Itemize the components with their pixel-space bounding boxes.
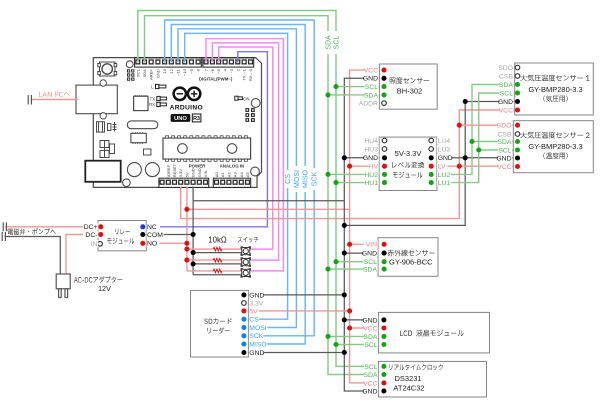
svg-text:AT24C32: AT24C32	[393, 384, 424, 393]
wire pump to relay DC+	[5, 226, 101, 228]
Arduino mounting hole top	[126, 61, 133, 68]
svg-text:POWER: POWER	[189, 164, 206, 169]
level converter pin HU4	[382, 138, 387, 143]
svg-text:TX→1: TX→1	[242, 68, 247, 80]
barometric sensor U1 GY-BMP280 box	[515, 63, 594, 115]
AC-DC adapter label	[74, 276, 123, 282]
RTC module DS3231 pin SCL	[381, 364, 386, 369]
barometric sensor U1 GY-BMP280 pin GND	[515, 99, 520, 104]
wire relay NO to 5V	[144, 242, 187, 244]
wire switch SW1 to GND	[193, 252, 242, 254]
SD pin labels	[249, 291, 263, 298]
wire SD 5V	[244, 310, 350, 312]
svg-text:GY-BMP280-3.3: GY-BMP280-3.3	[528, 85, 582, 94]
wire IR SCL branch	[336, 261, 384, 263]
Arduino power jack	[85, 161, 120, 182]
Arduino ICSP2 header	[127, 69, 134, 80]
svg-text:RX←0: RX←0	[248, 68, 253, 81]
BMP280-1 title	[520, 75, 589, 82]
wire relay COM to GND	[144, 234, 193, 236]
wire switch SW2 to GND	[193, 263, 242, 265]
net label SCL (rotated)	[333, 31, 340, 54]
relay pin NO	[140, 241, 145, 246]
infrared sensor GY-906 pin SCL	[382, 259, 387, 264]
infrared sensor GY-906 pin VIN	[382, 242, 387, 247]
wire HU1 branch	[336, 182, 385, 184]
svg-text:RESET: RESET	[172, 163, 177, 177]
svg-text:~10: ~10	[182, 68, 187, 76]
net label MOSI (rotated)	[293, 166, 300, 192]
SD pin 5V	[241, 308, 246, 313]
svg-text:GY-906-BCC: GY-906-BCC	[389, 258, 433, 267]
level converter pin LU3	[429, 147, 434, 152]
svg-text:GND: GND	[496, 155, 511, 162]
wire BMP280-2 SDO to 3.3V	[459, 124, 517, 126]
barometric sensor U2 GY-BMP280 pin CSB	[515, 132, 520, 137]
svg-text:SCL: SCL	[498, 147, 511, 154]
Arduino caps pair left	[100, 141, 115, 158]
wire 3.3V net (Arduino 3.3V to LV / BMP280-2 SDO,VCC / BMP280-1 VCC)	[181, 110, 518, 219]
barometric sensor U1 GY-BMP280 pin SDO	[515, 65, 520, 70]
svg-text:NO: NO	[147, 241, 157, 248]
switch SW3 (tactile)	[241, 269, 251, 278]
svg-text:HU3: HU3	[364, 146, 378, 153]
relay pin DC+	[98, 224, 103, 229]
Arduino mounting hole right	[251, 99, 260, 108]
Arduino small chip mid-left	[131, 133, 146, 142]
LCD module box	[379, 312, 490, 353]
Arduino reset button	[98, 62, 117, 76]
AC-DC adapter body	[56, 274, 70, 289]
resistor R1 10k pull-up row	[187, 248, 213, 250]
svg-text:GND: GND	[362, 251, 377, 258]
svg-text:HU2: HU2	[364, 172, 378, 179]
relay pin COM	[140, 232, 145, 237]
BMP280-2 title	[520, 132, 589, 139]
illuminance sensor BH-302 pin VCC	[381, 68, 386, 73]
svg-text:LU1: LU1	[438, 180, 451, 187]
wire LC GND left branch	[344, 157, 384, 159]
svg-text:13: 13	[162, 68, 167, 73]
svg-text:SDA: SDA	[363, 267, 377, 274]
wire adapter to relay DC-	[66, 235, 101, 275]
illuminance sensor BH-302 box	[379, 64, 437, 109]
level converter pin HU1	[382, 180, 387, 185]
svg-text:DC-: DC-	[85, 232, 97, 239]
svg-text:SDA: SDA	[364, 334, 378, 341]
svg-text:VIN: VIN	[366, 242, 377, 249]
svg-text:RX: RX	[149, 102, 155, 107]
infrared sensor GY-906 pin SDA	[382, 267, 387, 272]
BH-302 title	[390, 77, 430, 84]
illuminance sensor BH-302 pin SDA	[381, 92, 386, 97]
wire IR SDA branch	[328, 268, 384, 270]
wire LCD SCL branch	[336, 344, 384, 346]
wire pin2 to relay NC	[144, 52, 267, 227]
SD pin CS	[241, 317, 246, 322]
svg-text:GND: GND	[362, 388, 377, 395]
Arduino infinity logo	[174, 88, 201, 100]
svg-text:ON: ON	[243, 97, 249, 102]
svg-text:LV: LV	[438, 164, 446, 171]
svg-text:CSB: CSB	[499, 73, 513, 80]
svg-text:A4: A4	[239, 172, 244, 178]
svg-text:GND: GND	[197, 168, 202, 177]
relay pin IN (open)	[98, 242, 103, 247]
illuminance sensor BH-302 pin ADDR	[382, 101, 387, 106]
wire BMP280-2 SCL branch	[479, 149, 518, 151]
Arduino digital header pins SCL-8	[135, 58, 202, 67]
Arduino MCU ATmega328	[163, 136, 251, 162]
connector to LAN PC (double bar)	[28, 95, 31, 105]
wire 5V branch to HV rail	[187, 208, 350, 210]
barometric sensor U2 GY-BMP280 pin SDA	[515, 139, 520, 144]
barometric sensor U2 GY-BMP280 pin SDO	[515, 123, 520, 128]
svg-text:ADDR: ADDR	[359, 101, 378, 108]
svg-text:A0: A0	[214, 172, 219, 178]
svg-text:LU3: LU3	[438, 146, 451, 153]
IR sensor title	[388, 250, 435, 257]
resistor R2 10k pull-up row	[187, 259, 213, 261]
level converter pin GND	[382, 155, 387, 160]
svg-text:AREF: AREF	[149, 69, 154, 80]
svg-text:SDA: SDA	[364, 372, 378, 379]
svg-text:A2: A2	[226, 172, 231, 178]
svg-text:CS: CS	[249, 317, 259, 324]
wire BMP280-2 SDA branch	[472, 141, 518, 143]
svg-text:DIGITAL(PWM~): DIGITAL(PWM~)	[199, 76, 233, 81]
resistor R3 10k pull-up row	[187, 270, 213, 272]
svg-text:5V-3.3V: 5V-3.3V	[395, 149, 422, 158]
svg-text:TX: TX	[150, 96, 156, 101]
Arduino POWER header	[159, 178, 209, 187]
svg-text:DS3231: DS3231	[394, 374, 421, 383]
level converter pin GND	[429, 155, 434, 160]
wire SCK (Arduino pin 13 to SD reader SCK)	[165, 20, 315, 336]
Arduino ANALOG IN header	[213, 178, 250, 187]
wire SD GND bottom	[244, 352, 344, 354]
wire pin7 to switch SW3	[206, 39, 283, 271]
label LAN PC	[39, 92, 70, 97]
junction dots green (SDA/SCL nets)	[333, 84, 338, 89]
svg-text:BH-302: BH-302	[397, 86, 422, 95]
svg-text:GND: GND	[498, 99, 513, 106]
svg-text:LU2: LU2	[438, 172, 451, 179]
wire SD MOSI stub	[244, 327, 266, 329]
RTC module DS3231 pin SDA	[381, 372, 386, 377]
barometric sensor U1 GY-BMP280 pin SDA	[515, 82, 520, 87]
svg-text:~3: ~3	[229, 68, 234, 73]
svg-text:~5: ~5	[216, 68, 221, 73]
net label SCK (rotated)	[311, 168, 318, 190]
svg-text:~11: ~11	[176, 68, 181, 75]
svg-text:MOSI: MOSI	[294, 170, 301, 188]
svg-text:~9: ~9	[189, 68, 194, 73]
level converter pin LU4	[429, 138, 434, 143]
wire LCD VCC branch	[350, 327, 384, 329]
svg-text:VCC: VCC	[499, 107, 513, 114]
wire LV to BMP280-2 VCC	[431, 165, 517, 167]
svg-text:3.3V: 3.3V	[178, 169, 183, 178]
svg-text:HU4: HU4	[364, 138, 378, 145]
svg-text:SDA: SDA	[498, 139, 512, 146]
barometric sensor U1 GY-BMP280 pin VCC	[515, 107, 520, 112]
LCD module pin SDA	[381, 334, 386, 339]
Ethernet jack	[76, 85, 117, 114]
svg-text:HU1: HU1	[364, 180, 378, 187]
pump label 電磁弁・ポンプへ	[8, 228, 56, 235]
svg-text:SDA: SDA	[142, 69, 147, 78]
svg-text:VCC: VCC	[364, 68, 378, 75]
wire pin5 to switch SW1	[219, 47, 273, 249]
svg-text:MISO: MISO	[249, 341, 266, 348]
SD pin MOSI	[241, 325, 246, 330]
wire IR VIN branch	[350, 243, 385, 245]
barometric sensor U2 GY-BMP280 box	[513, 121, 593, 173]
wire IR GND branch	[344, 252, 384, 254]
Arduino bottom circles	[127, 163, 141, 177]
svg-text:VIN: VIN	[203, 170, 208, 177]
Arduino oscillator oval	[127, 121, 158, 129]
svg-text:IN: IN	[91, 241, 98, 248]
svg-text:MOSI: MOSI	[249, 325, 266, 332]
svg-text:DC+: DC+	[84, 224, 98, 231]
RTC module DS3231 box	[379, 361, 487, 397]
svg-text:SCL: SCL	[364, 342, 377, 349]
svg-text:ARDUINO: ARDUINO	[170, 104, 203, 111]
net label CS (rotated)	[284, 170, 291, 188]
svg-text:12V: 12V	[98, 284, 111, 293]
relay label text	[115, 229, 129, 235]
wire LAN cable	[31, 99, 78, 101]
svg-text:GND: GND	[191, 168, 196, 177]
svg-text:COM: COM	[147, 232, 163, 239]
wire GND rail right (BH-302 GND / LC GND / IR GND / SD GND / LCD GND / RTC GND)	[344, 78, 384, 391]
svg-text:GND: GND	[155, 69, 160, 78]
wire GND vertical (Arduino GND to relay COM and switches)	[192, 187, 194, 275]
junction dots red (power nets)	[184, 207, 189, 212]
Arduino small caps/components left	[97, 122, 117, 132]
Arduino digital header pins 7-0	[203, 58, 254, 67]
RTC module DS3231 pin VCC	[381, 380, 386, 385]
barometric sensor U2 GY-BMP280 pin SCL	[515, 147, 520, 152]
svg-text:IOREF: IOREF	[166, 164, 171, 177]
switch SW2 (tactile)	[241, 258, 251, 267]
wire LU2 to BMP280 SDA (3.3V side)	[431, 85, 517, 175]
wire SD CS stub	[244, 318, 261, 320]
wire SD MISO stub	[244, 343, 266, 345]
level converter pin HU2	[382, 172, 387, 177]
svg-text:GND: GND	[363, 155, 378, 162]
relay pin DC-	[98, 232, 103, 237]
Arduino ON LED	[235, 96, 243, 100]
wire GND link to BMP280 sensors	[344, 102, 517, 226]
level converter pin LU1	[429, 180, 434, 185]
level converter pin LU2	[429, 172, 434, 177]
level converter box	[379, 137, 437, 190]
svg-text:A1: A1	[220, 172, 225, 178]
svg-text:GND: GND	[249, 350, 264, 357]
wire SD GND top	[244, 294, 344, 296]
SD pin GND2	[241, 350, 246, 355]
svg-text:SDA: SDA	[499, 82, 513, 89]
SD pin SCK	[241, 333, 246, 338]
wire MISO (Arduino pin 12 to SD reader MISO)	[171, 25, 305, 345]
wire LU1 to BMP280 SCL (3.3V side)	[431, 93, 517, 183]
junction dots black (GND net)	[191, 232, 196, 237]
barometric sensor U1 GY-BMP280 pin SCL	[515, 90, 520, 95]
net label MISO (rotated)	[302, 166, 309, 192]
svg-text:CSB: CSB	[498, 131, 512, 138]
wire SCL bus (Arduino SCL pin to BH-302/level-converter HU1/IR/LCD/RTC SCL)	[138, 11, 384, 367]
svg-text:GND: GND	[249, 292, 264, 299]
svg-text:VCC: VCC	[363, 380, 377, 387]
svg-text:5V: 5V	[249, 308, 258, 315]
illuminance sensor BH-302 pin GND	[381, 76, 386, 81]
svg-text:GND: GND	[363, 76, 378, 83]
RTC title	[389, 364, 443, 370]
wire 5V rail right (BH-302 VCC / HV / IR VIN / SD 5V / LCD VCC / RTC VCC)	[350, 70, 384, 383]
svg-text:CS: CS	[285, 174, 292, 184]
svg-text:SCL: SCL	[364, 364, 377, 371]
barometric sensor U2 GY-BMP280 pin VCC	[515, 164, 520, 169]
svg-text:SCK: SCK	[249, 333, 263, 340]
Arduino square chip	[134, 96, 148, 110]
wire pin6 to switch SW2	[212, 43, 278, 260]
svg-text:3.3V: 3.3V	[249, 300, 263, 307]
svg-text:UNO: UNO	[174, 116, 187, 122]
illuminance sensor BH-302 pin SCL	[381, 84, 386, 89]
wire BH-302 SDA branch	[328, 94, 384, 96]
svg-text:12: 12	[169, 68, 174, 73]
level converter pin HU3	[382, 147, 387, 152]
RTC module DS3231 pin GND	[381, 388, 386, 393]
Arduino tiny component	[144, 149, 151, 155]
barometric sensor U2 GY-BMP280 pin GND	[515, 155, 520, 160]
svg-text:SDA: SDA	[326, 35, 333, 50]
relay module box	[98, 221, 146, 251]
svg-text:SCL: SCL	[135, 68, 140, 77]
Arduino ICSP header	[245, 108, 254, 122]
level converter pin HV	[382, 164, 387, 169]
svg-text:SCK: SCK	[312, 171, 319, 186]
wire HU2 branch	[328, 173, 385, 175]
wire HV branch	[350, 165, 385, 167]
wire BH-302 SCL branch	[336, 86, 384, 88]
barometric sensor U1 GY-BMP280 pin CSB	[515, 74, 520, 79]
SD card reader label	[204, 318, 231, 324]
wire LCD GND branch	[344, 319, 384, 321]
caption switch スイッチ	[238, 237, 258, 243]
Arduino UNO board outline	[93, 58, 261, 188]
infrared sensor GY-906 pin GND	[382, 251, 387, 256]
LCD module pin GND	[381, 317, 386, 322]
svg-text:VCC: VCC	[497, 164, 511, 171]
svg-text:SCL: SCL	[365, 84, 378, 91]
svg-text:NC: NC	[147, 224, 157, 231]
wire GND branch to GND rail	[193, 200, 344, 202]
level converter pin LV	[429, 164, 434, 169]
connector to solenoid/pump (double bar)	[2, 222, 6, 241]
SD pin GND	[241, 292, 246, 297]
svg-text:SDO: SDO	[498, 65, 513, 72]
wire GND LC right to BMP280-2 GND	[431, 157, 517, 159]
svg-text:SCL: SCL	[500, 90, 513, 97]
svg-text:SDO: SDO	[497, 123, 512, 130]
svg-text:ANALOG IN: ANALOG IN	[220, 164, 245, 169]
relay pin NC	[140, 224, 145, 229]
svg-text:MISO: MISO	[303, 170, 310, 188]
wire MOSI (Arduino pin 11 to SD reader MOSI)	[178, 29, 296, 328]
SD pin MISO	[241, 341, 246, 346]
Arduino digital pin labels	[135, 68, 253, 81]
wire pump return to AC-DC adapter	[5, 237, 61, 275]
LCD module pin SCL	[381, 342, 386, 347]
wire SDA bus (Arduino SDA pin to BH-302/level-converter HU2/IR/LCD/RTC SDA)	[145, 16, 384, 375]
svg-text:SCL: SCL	[334, 36, 341, 50]
wire SD SCK stub	[244, 335, 263, 337]
svg-text:SCL: SCL	[364, 259, 377, 266]
wire switch SW3 to GND	[193, 274, 242, 276]
wire 5V vertical (Arduino 5V to relay NO and switch pull-ups)	[186, 187, 188, 271]
svg-text:A3: A3	[233, 172, 238, 178]
svg-text:SDA: SDA	[364, 92, 378, 99]
svg-text:GY-BMP280-3.3: GY-BMP280-3.3	[528, 142, 582, 151]
LCD module pin VCC	[381, 325, 386, 330]
svg-text:LU4: LU4	[438, 138, 451, 145]
svg-text:A5: A5	[245, 172, 250, 178]
wire CS (Arduino pin 10 to SD reader CS)	[185, 33, 288, 319]
SD pin 3.3V (open)	[242, 301, 247, 306]
svg-text:VCC: VCC	[363, 325, 377, 332]
svg-text:HV: HV	[369, 164, 379, 171]
LCD title	[400, 330, 463, 337]
svg-text:GND: GND	[438, 155, 453, 162]
relay pin labels	[83, 223, 98, 230]
svg-text:R3: R3	[193, 116, 200, 122]
svg-text:5V: 5V	[184, 172, 189, 177]
Arduino UNO R3 badge	[171, 114, 191, 122]
svg-text:GND: GND	[362, 317, 377, 324]
svg-text:10kΩ: 10kΩ	[208, 236, 227, 245]
SD card reader box	[191, 290, 249, 357]
svg-text:~6: ~6	[210, 68, 215, 73]
switch SW1 (tactile)	[241, 247, 251, 256]
infrared sensor GY-906 box	[378, 238, 438, 277]
net label SDA (rotated)	[325, 31, 332, 54]
wire LCD SDA branch	[328, 335, 384, 337]
